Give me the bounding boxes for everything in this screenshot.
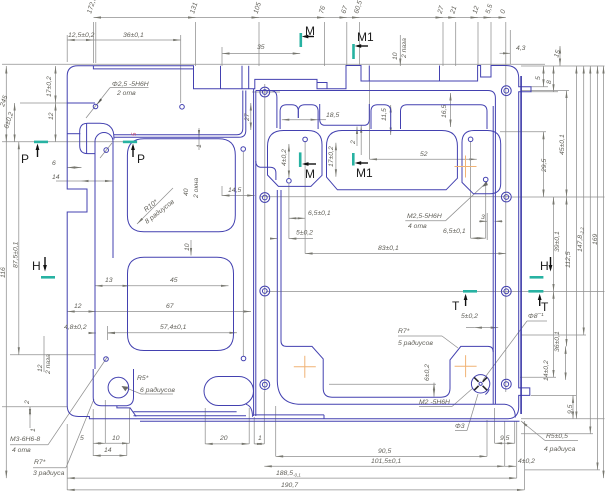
ladder 29.5 (543, 132, 545, 197)
bottom-left slot with circle (93, 369, 133, 406)
section P-P left arrow (37, 146, 39, 157)
rib segment right of channel (256, 161, 276, 180)
svg-text:90,5: 90,5 (378, 448, 391, 455)
section P-P right arrow (132, 146, 134, 157)
dim 188.5 (67, 477, 517, 479)
ladder 112.5 (566, 197, 568, 346)
svg-text:12: 12 (74, 303, 82, 310)
central channel (253, 89, 255, 416)
section M top tick (299, 33, 302, 47)
svg-text:12: 12 (37, 364, 44, 372)
svg-text:R7*: R7* (398, 328, 410, 335)
svg-text:11,5: 11,5 (381, 108, 388, 121)
dim 5 right (543, 66, 545, 87)
big cross hole (471, 375, 489, 395)
upper band pocket arches (280, 105, 298, 129)
section T right tick (528, 290, 543, 293)
svg-text:6,5±0,1: 6,5±0,1 (308, 210, 331, 217)
outer plate outline (67, 66, 531, 419)
ear boss outline (80, 123, 114, 153)
dim 35 (222, 53, 300, 55)
ladder long b (603, 66, 605, 478)
svg-text:1: 1 (196, 144, 203, 148)
svg-text:4 отв: 4 отв (408, 223, 427, 230)
svg-text:3: 3 (481, 214, 485, 221)
extension y197 (511, 196, 605, 198)
svg-text:45±0,1: 45±0,1 (559, 134, 566, 155)
svg-text:14: 14 (104, 447, 112, 454)
svg-text:2 окна: 2 окна (193, 178, 200, 199)
svg-text:Φ2,5 -5Н6Н: Φ2,5 -5Н6Н (112, 81, 149, 88)
section M top arrow (305, 36, 315, 38)
svg-text:5: 5 (80, 435, 84, 442)
svg-text:27: 27 (244, 113, 251, 122)
svg-text:35: 35 (257, 44, 265, 51)
hole M2.5 tl (303, 137, 308, 142)
svg-text:4±0,2: 4±0,2 (281, 149, 288, 166)
svg-text:17±0,2: 17±0,2 (328, 146, 335, 167)
dim 14pm02 lower right (565, 346, 567, 380)
ordinate station arrows (188, 17, 196, 19)
hole small bottom mid (241, 356, 246, 361)
section M1 mid arrow (357, 162, 368, 164)
dim 17pm02 mid (335, 143, 337, 177)
dim 6.5 left mid (289, 217, 305, 219)
svg-text:6,5±0,1: 6,5±0,1 (443, 228, 466, 235)
svg-text:12,5±0,2: 12,5±0,2 (68, 32, 95, 39)
dim 1 small (198, 128, 200, 137)
dim 17pm02 left (55, 66, 57, 103)
hole small bottom left (104, 357, 109, 362)
hole pocket1 (241, 147, 246, 152)
svg-text:29,5: 29,5 (541, 159, 548, 173)
svg-text:57,4±0,1: 57,4±0,1 (160, 324, 187, 331)
inner bottom wall (277, 190, 515, 418)
svg-text:4 радиуса: 4 радиуса (544, 445, 576, 453)
dim 12 row (67, 311, 96, 313)
dim 90.5 (276, 455, 487, 457)
long top line of middle pockets (284, 130, 309, 132)
dim 8 right (553, 66, 555, 92)
section T left arrow (465, 296, 467, 306)
circle R5 in slot (108, 377, 129, 398)
section M mid arrow (305, 163, 317, 165)
leader phi3 (455, 430, 467, 432)
dim 14 small (81, 180, 113, 182)
svg-text:112,5: 112,5 (565, 251, 572, 268)
section P-P left tick (34, 141, 48, 144)
dim 20 (205, 443, 249, 445)
counterbore column right (501, 86, 511, 389)
section M1 top arrow (357, 45, 368, 47)
leader M2-5N6N (419, 406, 452, 408)
pocket 3b (462, 131, 501, 194)
svg-text:2: 2 (24, 400, 31, 405)
svg-text:4±0,2: 4±0,2 (518, 458, 535, 465)
second bottom edge line (140, 420, 520, 422)
section P-P right tick (123, 141, 137, 144)
svg-text:116: 116 (0, 267, 7, 278)
dim 5pm02 mid (270, 238, 277, 240)
ladder 39pm01 (553, 197, 555, 291)
bottom dims 5 10 14 (93, 442, 105, 444)
dim 4pm02 mid (288, 144, 290, 178)
left ladder 245 (5, 66, 7, 478)
dim 67 (96, 311, 251, 313)
ladder 36pm01 (553, 291, 555, 377)
svg-text:3 радиуса: 3 радиуса (33, 469, 65, 477)
dim 15 right top (559, 46, 561, 66)
svg-text:36±0,1: 36±0,1 (554, 331, 561, 352)
hole 2.5 a (93, 104, 98, 109)
svg-text:5 радиусов: 5 радиусов (398, 339, 433, 347)
dim 190.7 (67, 489, 524, 491)
orange cross bottom right (455, 355, 477, 377)
rib lines to top wall (114, 91, 243, 135)
svg-text:6±0,2: 6±0,2 (424, 364, 431, 381)
svg-text:9,5: 9,5 (567, 404, 574, 414)
svg-text:5±0,2: 5±0,2 (461, 313, 478, 320)
svg-text:М2,5-5Н6Н: М2,5-5Н6Н (407, 213, 442, 220)
dim 16.5 band (450, 93, 452, 127)
svg-text:R5±0,5: R5±0,5 (546, 433, 568, 440)
section T left tick (463, 290, 477, 293)
svg-text:169: 169 (592, 233, 599, 245)
ear slot arc (95, 133, 113, 148)
hole ear (104, 148, 109, 153)
svg-text:36±0,1: 36±0,1 (123, 32, 144, 39)
section M1 mid tick (352, 153, 355, 166)
svg-text:4,8±0,2: 4,8±0,2 (64, 324, 87, 331)
dim 101.5 (264, 465, 504, 467)
tab extensions (531, 86, 548, 88)
dim 57.4 (108, 332, 238, 334)
extension top edge right (521, 65, 605, 67)
svg-text:83±0,1: 83±0,1 (378, 245, 399, 252)
svg-text:5: 5 (535, 76, 542, 80)
svg-text:2 паза: 2 паза (401, 38, 408, 59)
svg-text:10: 10 (112, 435, 120, 442)
dim 6pm02 bottom mid (433, 383, 435, 397)
dim 18.5 band (282, 119, 318, 121)
svg-text:52: 52 (420, 151, 428, 158)
svg-text:18,5: 18,5 (326, 112, 339, 119)
dim 12 left (55, 103, 57, 142)
leader R7 5 radiusov (398, 335, 442, 337)
bottom step line left (134, 411, 237, 413)
left cavity top line (67, 102, 95, 104)
svg-text:H: H (32, 259, 41, 273)
dim 2 small mid (356, 127, 358, 147)
ear hole leader (100, 143, 112, 158)
dim 14.5 (222, 195, 255, 197)
ordinate extension verticals (93, 22, 95, 63)
inner top wall (256, 91, 496, 405)
dim 125 and 36 row (67, 39, 93, 41)
svg-text:4 отв: 4 отв (12, 447, 31, 454)
svg-text:2 паза: 2 паза (45, 354, 52, 375)
svg-text:101,5±0,1: 101,5±0,1 (371, 458, 401, 465)
window pocket 1 (127, 139, 235, 232)
dim 12 2paza label line (43, 336, 45, 372)
svg-text:M1: M1 (356, 166, 373, 180)
inner right wall second line (492, 106, 494, 404)
svg-text:1: 1 (258, 435, 262, 442)
dim 5pm02 lower right (474, 327, 498, 329)
svg-text:14,5: 14,5 (228, 187, 241, 194)
counterbore column left centerline (252, 91, 280, 93)
svg-text:67: 67 (166, 303, 174, 310)
slot channel verticals (94, 147, 96, 369)
svg-text:14: 14 (52, 174, 60, 181)
extension y418.8 right (521, 418, 605, 420)
svg-text:16,5: 16,5 (441, 105, 448, 118)
svg-text:R7*: R7* (34, 459, 46, 466)
svg-text:P: P (21, 152, 29, 166)
svg-text:14±0,2: 14±0,2 (543, 360, 550, 381)
svg-text:M: M (305, 167, 315, 181)
hole 2.5 b (180, 105, 185, 110)
orange cross bottom left (294, 356, 316, 378)
ladder 102.5 (583, 66, 585, 335)
dim 10 2paza vertical ext (399, 35, 401, 66)
dim 1 bottom (254, 443, 264, 445)
svg-text:Φ3: Φ3 (455, 423, 465, 430)
left row extensions (2, 63, 545, 65)
svg-text:87,5±0,1: 87,5±0,1 (13, 241, 20, 268)
svg-text:P: P (137, 152, 145, 166)
leader R7 3 radiusa (33, 467, 66, 469)
hole M2.5 tr (468, 137, 473, 142)
top ordinate dimension line (94, 17, 506, 19)
band left wall (271, 91, 277, 129)
section H left tick (41, 276, 55, 279)
svg-text:M: M (305, 24, 315, 38)
svg-text:12: 12 (48, 112, 55, 120)
dim 4.3 (500, 52, 511, 54)
svg-text:8: 8 (546, 80, 553, 84)
svg-text:Φ8¯¹: Φ8¯¹ (528, 312, 544, 320)
section T right arrow (539, 296, 541, 306)
bottom step line mid (254, 414, 324, 416)
lower middle pocket with chamfers (281, 190, 493, 397)
svg-text:М2 -5Н6Н: М2 -5Н6Н (419, 399, 450, 406)
svg-text:13: 13 (105, 277, 113, 284)
left ladder 6pm02 (14, 103, 16, 142)
svg-text:T: T (541, 300, 549, 314)
svg-text:45: 45 (170, 277, 178, 284)
svg-text:М3-6Н6-8: М3-6Н6-8 (10, 436, 40, 443)
pocket 3a (327, 131, 458, 190)
svg-text:10: 10 (184, 243, 191, 251)
svg-text:17±0,2: 17±0,2 (46, 76, 53, 97)
ladder 169 (597, 66, 599, 470)
leader R5 6 radiusov (141, 393, 173, 395)
svg-text:40: 40 (183, 188, 190, 196)
svg-text:R5*: R5* (137, 375, 149, 382)
left ladder 87.5 (18, 142, 20, 355)
svg-text:190,7: 190,7 (281, 482, 298, 489)
section M mid tick (299, 152, 302, 167)
dim 6 small (67, 167, 81, 169)
svg-text:1: 1 (30, 428, 37, 432)
svg-text:2: 2 (350, 140, 357, 145)
hole M2.5 bl (287, 179, 292, 184)
svg-text:2 отв: 2 отв (116, 90, 136, 97)
svg-text:20: 20 (219, 435, 228, 442)
counterbore column left (260, 87, 270, 389)
dim 6.5 right mid (471, 237, 486, 239)
orange cross right upper (455, 156, 477, 178)
svg-text:10: 10 (392, 52, 399, 60)
mid grey row y196.7 (260, 196, 510, 198)
leader M3 bottom left (10, 444, 48, 446)
dim 45 (130, 285, 229, 287)
hole column cross ext (242, 152, 244, 356)
leader M2.5 (405, 220, 445, 222)
ladder long a (589, 66, 591, 434)
pocket M (middle small) (268, 131, 323, 187)
ladder 45pm01 (566, 91, 568, 198)
dim 11.5 band (390, 105, 392, 135)
extension y291 (266, 291, 605, 293)
dim 9.5 right vertical (572, 395, 574, 418)
dim 13 (95, 285, 130, 287)
section M1 top tick (352, 44, 355, 59)
stadium slot (204, 377, 254, 406)
dim 83 (305, 253, 506, 255)
bottom left small dims (29, 407, 31, 417)
right edge second line (520, 76, 522, 414)
dim 52 (370, 158, 477, 160)
section H left arrow (44, 257, 46, 269)
svg-text:5±0,2: 5±0,2 (296, 230, 313, 237)
svg-text:H: H (540, 259, 549, 273)
top notch partitions (93, 66, 193, 69)
svg-text:6: 6 (52, 160, 56, 167)
dim 9.5 bottom (495, 442, 515, 444)
ladder 147.8 (575, 66, 577, 419)
hole M2.5 br (483, 177, 488, 182)
dim 27 (250, 103, 252, 130)
dim 4.8 (89, 332, 96, 334)
dim 4pm02 bottom right (505, 465, 516, 467)
slot pedestal step (117, 406, 136, 417)
svg-text:39±0,1: 39±0,1 (554, 231, 561, 252)
stadium to bottom step arc (246, 404, 253, 417)
svg-text:T: T (452, 299, 460, 313)
section H right tick (530, 276, 544, 279)
svg-text:6 радиусов: 6 радиусов (140, 386, 175, 394)
dim 3 (479, 220, 487, 222)
leader phi8 (483, 321, 527, 380)
section H right arrow (550, 257, 552, 269)
leader R5pm05 (545, 440, 578, 442)
svg-text:M1: M1 (357, 30, 374, 44)
svg-text:4,3: 4,3 (516, 45, 526, 52)
leader phi25 (86, 88, 110, 118)
window pocket 2 (128, 257, 234, 350)
svg-text:9,5: 9,5 (500, 435, 510, 442)
